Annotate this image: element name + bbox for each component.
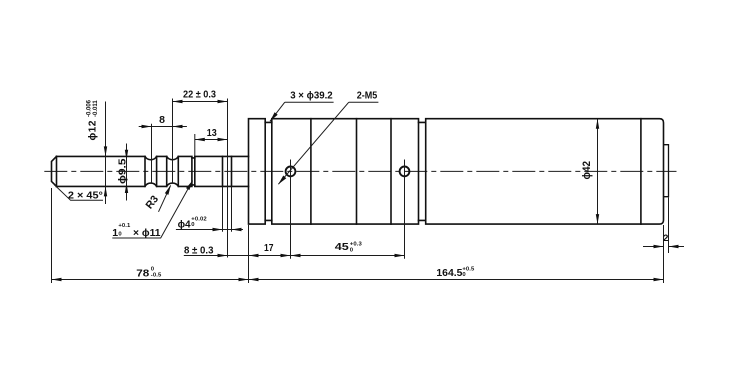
svg-text:17: 17 — [264, 242, 274, 254]
svg-text:8 ± 0.3: 8 ± 0.3 — [184, 245, 214, 257]
svg-text:-0.011: -0.011 — [93, 100, 99, 117]
svg-text:2 × 45°: 2 × 45° — [68, 190, 103, 202]
svg-text:2: 2 — [663, 233, 668, 243]
svg-text:45: 45 — [335, 241, 349, 253]
svg-text:+0.1: +0.1 — [118, 223, 131, 229]
svg-text:ϕ9.5: ϕ9.5 — [116, 158, 128, 184]
svg-text:ϕ4: ϕ4 — [178, 218, 191, 230]
svg-text:-0.5: -0.5 — [151, 272, 162, 278]
svg-text:2-M5: 2-M5 — [357, 90, 378, 102]
svg-text:ϕ42: ϕ42 — [581, 161, 593, 180]
svg-text:0: 0 — [191, 222, 195, 228]
svg-text:8: 8 — [159, 114, 165, 126]
svg-text:22 ± 0.3: 22 ± 0.3 — [183, 89, 216, 101]
svg-text:13: 13 — [207, 127, 217, 139]
svg-text:-0.006: -0.006 — [87, 99, 93, 117]
svg-text:0: 0 — [350, 247, 354, 253]
svg-text:164.5: 164.5 — [436, 267, 462, 279]
svg-text:× ϕ11: × ϕ11 — [133, 227, 161, 239]
svg-text:ϕ12: ϕ12 — [88, 120, 99, 140]
svg-text:3 × ϕ39.2: 3 × ϕ39.2 — [290, 90, 333, 102]
svg-text:78: 78 — [136, 268, 149, 280]
svg-text:1: 1 — [112, 227, 118, 239]
